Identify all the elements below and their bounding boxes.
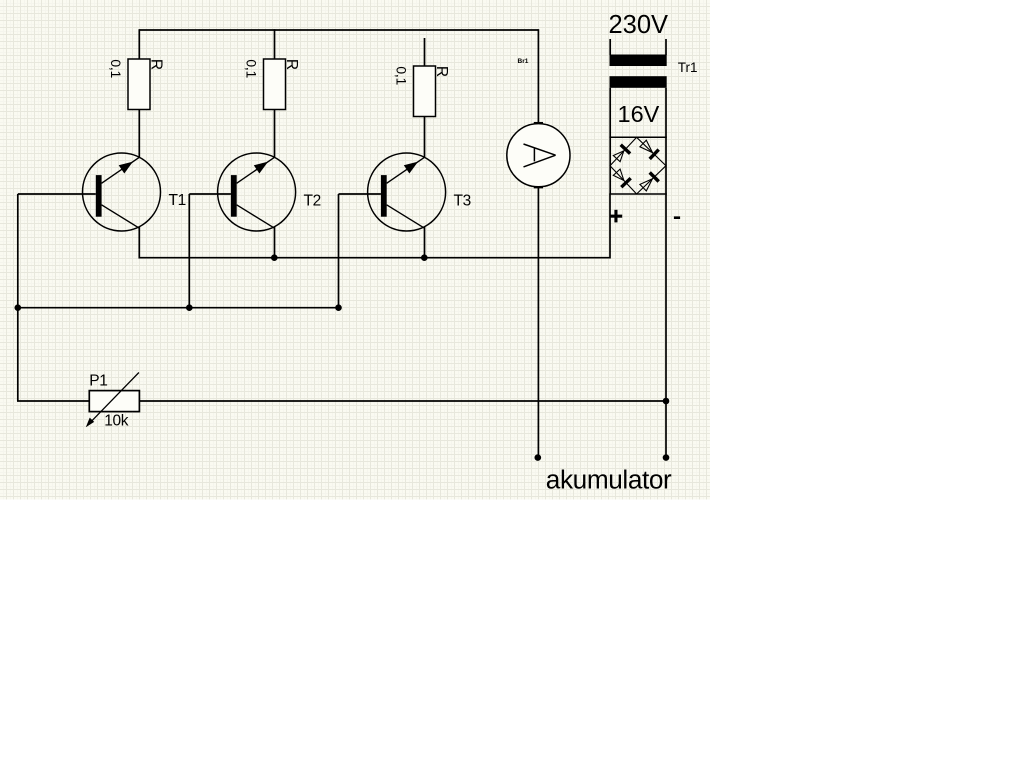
svg-text:akumulator: akumulator [546, 464, 672, 494]
wire: R2 bottom lead to T2 collector [274, 110, 276, 159]
wire: R1 top lead [138, 29, 140, 59]
ammeter letter A (rotated) [524, 144, 556, 167]
svg-text:R: R [433, 66, 450, 77]
label + [610, 210, 623, 223]
svg-text:P1: P1 [89, 373, 107, 390]
diode D3 (bottom-left edge) [613, 169, 630, 187]
wire: P1 left lead [17, 400, 89, 402]
svg-text:R: R [283, 59, 300, 70]
wire: ammeter top lead [537, 29, 539, 123]
ammeter meter circle [507, 124, 570, 187]
wire: R1 bottom lead to T1 collector [138, 110, 140, 159]
bridge rectifier diamond [610, 137, 666, 194]
ammeter terminal ticks [534, 122, 543, 124]
wire: T2 base drop [188, 194, 190, 308]
svg-text:R: R [147, 59, 164, 70]
potentiometer P1 body [89, 391, 139, 412]
node: battery minus terminal [663, 454, 670, 461]
resistor R2 body 0,1 [264, 59, 286, 110]
transistor T3 [368, 153, 446, 231]
transistor T2 [218, 153, 296, 231]
svg-text:230V: 230V [609, 11, 669, 39]
resistor R1 body 0,1 [128, 59, 150, 110]
wire: base bus y=308 [18, 307, 339, 309]
wire: top supply bus y=30 [139, 29, 538, 31]
wire: T3 emitter lead down [424, 227, 426, 258]
diode D2 (top-right edge) [640, 140, 659, 159]
node: battery plus terminal [535, 454, 542, 461]
svg-text:10k: 10k [104, 412, 128, 429]
wire: T3 base drop [338, 194, 340, 308]
node: base bus T2 [186, 304, 193, 311]
wire: bridge minus rail down [665, 194, 667, 458]
transformer Tr1 primary leads [609, 39, 611, 55]
svg-text:T3: T3 [454, 193, 471, 210]
svg-text:T1: T1 [169, 192, 186, 209]
wire: emitter bus y=257.7 to bridge + [139, 194, 610, 258]
svg-text:T2: T2 [304, 193, 321, 210]
wire: P1 right lead to minus rail [139, 400, 666, 402]
node: base bus T3 [335, 304, 342, 311]
node: P1 to minus rail junction [663, 398, 670, 405]
transistor T1 [83, 153, 161, 231]
svg-text:Br1: Br1 [518, 58, 529, 65]
wire: T1 emitter lead down [138, 227, 140, 259]
node: emitter bus T2 [271, 254, 278, 261]
wire: T3 base lead [339, 193, 381, 195]
svg-text:0,1: 0,1 [243, 59, 259, 78]
wire: T2 base lead [189, 193, 231, 195]
wire: ammeter bottom lead to battery plus [537, 187, 539, 458]
wire: R2 top lead [274, 29, 276, 59]
svg-text:16V: 16V [618, 101, 660, 127]
label - [674, 216, 680, 219]
diode D1 (top-left edge) [613, 145, 630, 162]
schematic grid background [0, 0, 710, 500]
diode D4 (bottom-right edge) [640, 173, 659, 191]
node: base bus left [14, 304, 21, 311]
wire: T1 base lead [18, 193, 96, 195]
potentiometer P1 arrow [88, 373, 139, 425]
svg-text:0,1: 0,1 [393, 66, 409, 85]
bridge rectifier Br1 box [609, 88, 666, 194]
wire: R3 bottom lead to T3 collector [424, 117, 426, 159]
svg-text:0,1: 0,1 [108, 59, 124, 78]
wire: T2 emitter lead down [274, 227, 276, 258]
wire: R3 top lead (floating end) [424, 38, 426, 67]
transformer Tr1 primary bar [610, 55, 667, 67]
resistor R3 body 0,1 [414, 66, 436, 117]
svg-text:Tr1: Tr1 [678, 60, 698, 75]
node: emitter bus T3 [421, 254, 428, 261]
transformer Tr1 secondary bar [610, 76, 667, 88]
wire: left rail vertical (T1 base down to P1) [17, 194, 19, 401]
